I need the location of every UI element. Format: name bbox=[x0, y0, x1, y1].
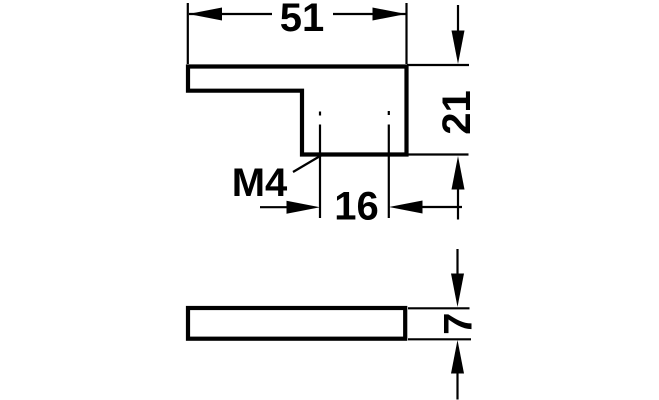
dimension line 51 left segment bbox=[189, 13, 272, 15]
top view handle profile outline bbox=[188, 67, 407, 155]
arrowhead 7 bottom bbox=[451, 340, 464, 374]
arrowhead 16 right bbox=[389, 201, 423, 214]
dimension arrow 7 top tail bbox=[456, 249, 458, 277]
svg-text:M4: M4 bbox=[232, 161, 288, 205]
centerline hole 2 / extension line (dim 16 right) bbox=[388, 125, 390, 219]
extension line bottom (dim 7) bbox=[408, 338, 471, 340]
extension line left (dim 51) bbox=[187, 3, 189, 64]
dimension arrow 16 left tail bbox=[260, 206, 290, 208]
svg-text:7: 7 bbox=[437, 313, 481, 335]
side view handle plate outline bbox=[188, 308, 405, 339]
centerline hole 1 dot bbox=[319, 112, 321, 116]
dimension arrow 16 right tail bbox=[421, 206, 462, 208]
extension line top (dim 21) bbox=[407, 64, 469, 66]
centerline hole 2 dot bbox=[388, 111, 390, 115]
dimension arrow 21 bottom tail bbox=[457, 186, 459, 220]
arrowhead 21 top bbox=[452, 31, 465, 65]
svg-text:16: 16 bbox=[334, 184, 379, 228]
arrowhead 51 right bbox=[373, 8, 407, 21]
extension line bottom (dim 21) bbox=[407, 153, 469, 155]
arrowhead 21 bottom bbox=[452, 156, 465, 190]
extension line right (dim 51) bbox=[405, 3, 407, 64]
leader line M4 bbox=[293, 156, 321, 173]
dimension arrow 21 top tail bbox=[457, 5, 459, 34]
centerline hole 1 / extension line (dim 16 left) bbox=[319, 125, 321, 219]
svg-text:51: 51 bbox=[280, 0, 325, 40]
arrowhead 51 left bbox=[189, 8, 223, 21]
extension line top (dim 7) bbox=[408, 307, 470, 309]
svg-text:21: 21 bbox=[435, 90, 479, 135]
dimension line 51 right segment bbox=[333, 13, 406, 15]
arrowhead 16 left bbox=[287, 201, 321, 214]
arrowhead 7 top bbox=[451, 274, 464, 308]
dimension arrow 7 bottom tail bbox=[456, 373, 458, 400]
